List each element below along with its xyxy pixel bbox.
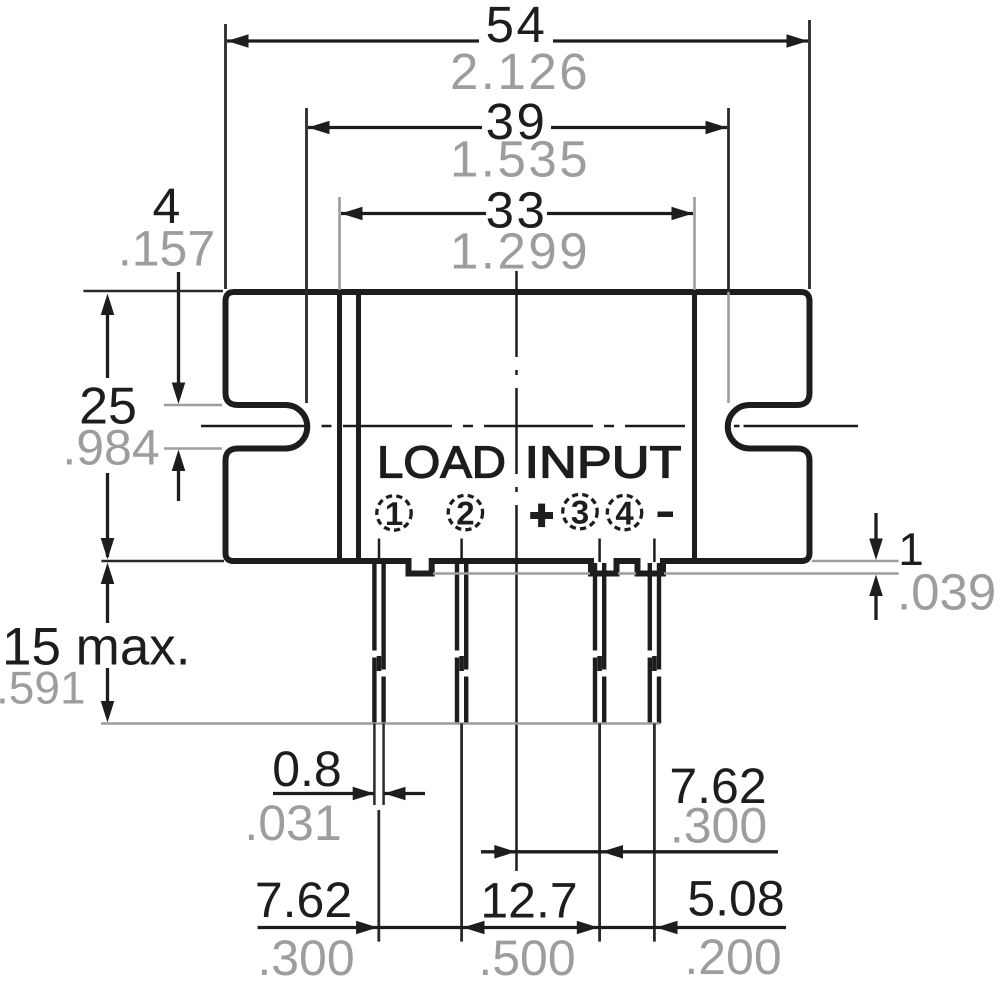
dim line 1 — [874, 513, 877, 620]
svg-text:.039: .039 — [897, 564, 996, 621]
extension line 39 left — [305, 108, 308, 403]
terminal circle 1 — [377, 496, 411, 530]
extension line 54 right — [808, 20, 811, 289]
extension line 54 left — [224, 24, 227, 289]
dim line 0.8 — [273, 792, 425, 795]
svg-text:2: 2 — [456, 495, 474, 532]
vertical centerline — [515, 271, 518, 560]
minus sign — [658, 512, 674, 518]
lid edge line left A — [337, 292, 342, 561]
terminal circle 3 — [563, 494, 597, 528]
svg-text:INPUT: INPUT — [525, 437, 682, 488]
extension line 33 right — [693, 197, 696, 290]
pin 3 center extension — [598, 724, 601, 942]
pin 3 — [595, 563, 604, 724]
pin end line — [101, 722, 660, 724]
svg-text:.157: .157 — [118, 221, 215, 277]
svg-text:.300: .300 — [670, 798, 767, 854]
extension line 33 left — [338, 197, 341, 290]
pin 2 center extension — [460, 724, 463, 942]
terminal circle 2 — [448, 495, 482, 529]
pin 1 — [374, 562, 383, 724]
seating plane line — [433, 572, 899, 574]
plus sign — [530, 504, 553, 527]
dim line 33 — [341, 212, 693, 215]
lid edge line right — [692, 292, 697, 561]
pin 4 center extension — [653, 724, 656, 942]
dim line 54 — [227, 39, 808, 42]
extension line 4 top — [164, 404, 222, 406]
extension line 4 bottom — [164, 447, 222, 449]
lid edge line left B — [356, 292, 361, 561]
pin 2 — [457, 562, 466, 724]
svg-text:.500: .500 — [478, 930, 575, 986]
svg-text:7.62: 7.62 — [255, 872, 352, 928]
svg-text:LOAD: LOAD — [377, 437, 506, 488]
package body outline — [226, 292, 810, 574]
svg-text:.300: .300 — [257, 930, 354, 986]
svg-text:.591: .591 — [0, 662, 86, 714]
svg-text:12.7: 12.7 — [480, 873, 577, 929]
pin 4 — [650, 563, 659, 724]
svg-text:.984: .984 — [62, 420, 159, 476]
pin 2 leader stub — [460, 539, 463, 563]
svg-text:1.535: 1.535 — [450, 131, 590, 188]
dim line bottom row — [258, 926, 786, 929]
terminal circle 4 — [607, 495, 641, 529]
svg-text:0.8: 0.8 — [272, 741, 342, 797]
svg-text:5.08: 5.08 — [687, 871, 784, 927]
dim line 7.62 upper right — [481, 850, 778, 853]
extension line body bottom left — [101, 560, 224, 563]
dim line 15 max — [106, 581, 109, 704]
svg-text:2.126: 2.126 — [450, 43, 590, 100]
extension line seat right — [812, 560, 899, 562]
dim line 25 — [106, 311, 109, 557]
svg-text:1: 1 — [385, 495, 403, 532]
pin 1 leader stub — [378, 539, 381, 563]
extension line 39 right — [727, 108, 730, 292]
dim line 4 — [177, 272, 180, 501]
pin 1 width extension lines — [374, 724, 383, 806]
svg-text:4: 4 — [615, 495, 634, 532]
pin 3 leader stub — [598, 539, 601, 563]
pin 4 leader stub — [653, 539, 656, 563]
dim line 39 — [308, 126, 727, 129]
pin 1 center extension — [377, 810, 380, 942]
svg-text:.200: .200 — [684, 929, 781, 985]
svg-text:.031: .031 — [244, 795, 341, 851]
horizontal centerline — [201, 425, 858, 428]
svg-text:1.299: 1.299 — [450, 223, 590, 280]
svg-text:3: 3 — [571, 494, 589, 531]
extension line body top left — [83, 290, 223, 293]
